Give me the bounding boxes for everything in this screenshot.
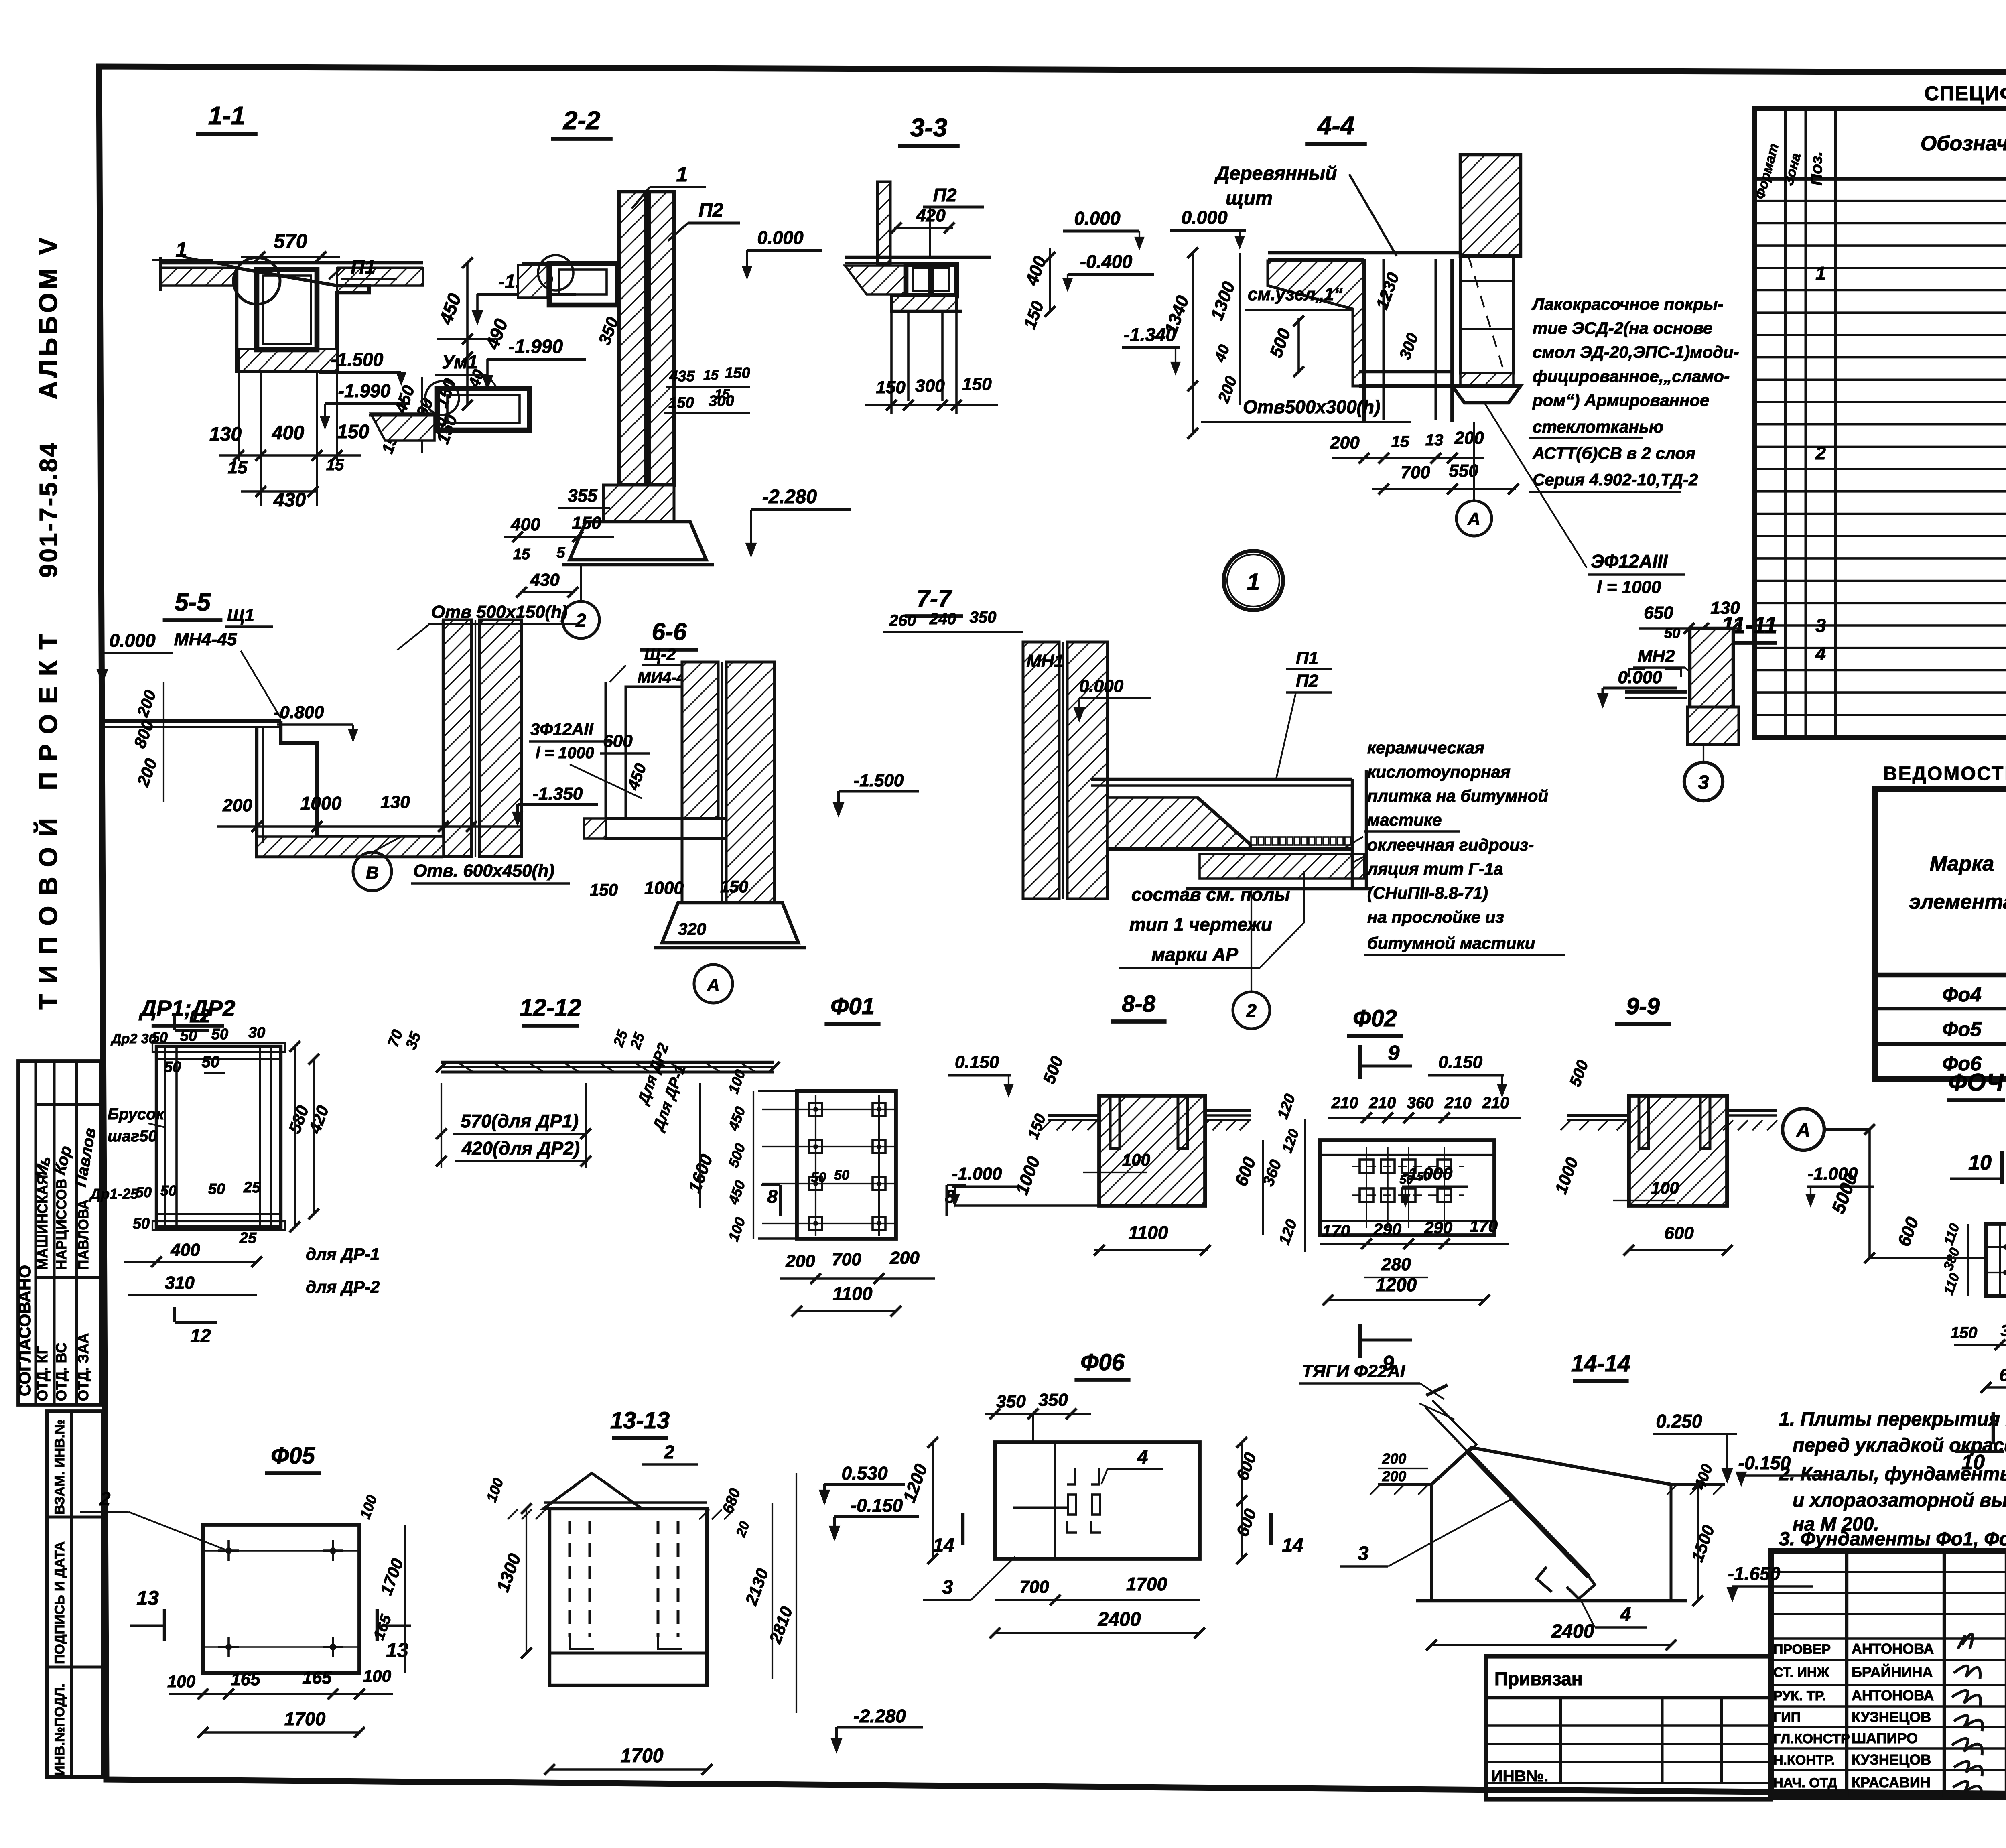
- DR grate plan: [156, 1046, 281, 1227]
- svg-text:и хлораозаторной выполнить из: и хлораозаторной выполнить из кислотоупо…: [1793, 1490, 2006, 1511]
- svg-text:-1.500: -1.500: [854, 771, 904, 790]
- svg-text:смол ЭД-20,ЭПС-1)моди-: смол ЭД-20,ЭПС-1)моди-: [1533, 343, 1739, 361]
- section 4-4 hatched wedge: [1268, 261, 1364, 386]
- svg-text:5-5: 5-5: [175, 589, 211, 616]
- svg-text:50: 50: [133, 1215, 150, 1232]
- section 4-4 left dim chain: [1192, 253, 1194, 433]
- svg-text:165: 165: [231, 1669, 260, 1689]
- svg-text:150: 150: [668, 394, 694, 411]
- svg-text:150: 150: [590, 880, 618, 899]
- svg-text:50: 50: [811, 1170, 826, 1185]
- svg-text:50: 50: [834, 1168, 849, 1183]
- svg-text:400: 400: [272, 422, 304, 444]
- svg-text:50: 50: [164, 1059, 181, 1076]
- svg-text:0.530: 0.530: [841, 1463, 888, 1484]
- 14-14 drawing: [1426, 1385, 1448, 1395]
- svg-text:битумной мастики: битумной мастики: [1367, 934, 1535, 952]
- svg-text:-1.990: -1.990: [508, 336, 563, 357]
- svg-text:Др2 30: Др2 30: [110, 1031, 156, 1046]
- svg-text:3: 3: [942, 1577, 953, 1598]
- steel consumption table: [1875, 789, 2006, 1079]
- svg-text:300: 300: [709, 393, 734, 410]
- svg-text:14-14: 14-14: [1571, 1350, 1630, 1377]
- privyazan block: [1486, 1656, 1771, 1799]
- svg-text:НАЧ. ОТД: НАЧ. ОТД: [1773, 1775, 1837, 1791]
- svg-text:2: 2: [1815, 443, 1826, 463]
- svg-text:СПЕЦИФИКАЦИЯ МОНОЛИТНЫХ ФУНДАМ: СПЕЦИФИКАЦИЯ МОНОЛИТНЫХ ФУНДАМЕНТОВ: [1925, 82, 2006, 105]
- svg-text:200: 200: [1454, 428, 1484, 448]
- svg-text:9-9: 9-9: [1626, 993, 1660, 1019]
- svg-text:А: А: [1796, 1120, 1811, 1141]
- svg-text:350: 350: [1038, 1390, 1068, 1410]
- section 4-4 channel walls: [1362, 259, 1366, 422]
- svg-text:0.250: 0.250: [1656, 1411, 1702, 1432]
- svg-text:15: 15: [703, 368, 719, 383]
- svg-text:МН4-45: МН4-45: [174, 630, 237, 649]
- svg-text:4-4: 4-4: [1317, 111, 1355, 140]
- svg-text:8: 8: [767, 1186, 778, 1207]
- svg-text:0.000: 0.000: [757, 227, 804, 248]
- svg-text:Ф05: Ф05: [271, 1443, 315, 1469]
- svg-text:50: 50: [208, 1181, 225, 1198]
- svg-text:1200: 1200: [1376, 1274, 1417, 1295]
- svg-text:СОГЛАСОВАНО: СОГЛАСОВАНО: [15, 1265, 34, 1396]
- svg-text:150: 150: [337, 421, 369, 443]
- svg-text:тие ЭСД-2(на основе: тие ЭСД-2(на основе: [1533, 319, 1712, 337]
- svg-text:-1.500: -1.500: [331, 349, 384, 370]
- section 3-3 slab: [845, 256, 991, 259]
- svg-text:АСТТ(б)СВ в 2 слоя: АСТТ(б)СВ в 2 слоя: [1532, 444, 1695, 463]
- svg-text:стеклотканью: стеклотканью: [1533, 417, 1663, 436]
- section 3-3 legs: [907, 311, 910, 401]
- svg-text:15: 15: [513, 546, 530, 563]
- F02 cut 9 top: [1358, 1045, 1362, 1079]
- svg-text:ЭФ12АIII: ЭФ12АIII: [1591, 551, 1668, 572]
- node A circle: [1783, 1109, 1824, 1150]
- F04 cut 10 bottom: [1992, 1412, 1995, 1444]
- section 4-4 right wall: [1460, 155, 1521, 256]
- svg-text:КУЗНЕЦОВ: КУЗНЕЦОВ: [1852, 1709, 1931, 1725]
- svg-text:АНТОНОВА: АНТОНОВА: [1852, 1641, 1934, 1657]
- svg-text:ВЗАМ. ИНВ.№: ВЗАМ. ИНВ.№: [52, 1419, 67, 1515]
- svg-text:12: 12: [189, 1005, 210, 1026]
- svg-text:ТЯГИ Ф22АI: ТЯГИ Ф22АI: [1302, 1361, 1405, 1381]
- svg-text:-1.990: -1.990: [338, 380, 391, 401]
- svg-text:600: 600: [1664, 1223, 1694, 1243]
- svg-text:ИНВ№.: ИНВ№.: [1491, 1767, 1548, 1785]
- svg-text:для ДР-1: для ДР-1: [306, 1245, 380, 1263]
- svg-text:Обозначение: Обозначение: [1921, 132, 2006, 155]
- svg-text:50: 50: [202, 1053, 220, 1071]
- svg-text:200: 200: [222, 796, 252, 815]
- svg-text:1700: 1700: [1126, 1574, 1167, 1594]
- svg-text:(СНиПII-8.8-71): (СНиПII-8.8-71): [1367, 883, 1488, 902]
- svg-text:КРАСАВИН: КРАСАВИН: [1852, 1774, 1931, 1791]
- svg-text:П1: П1: [1296, 648, 1318, 668]
- svg-text:4: 4: [1620, 1604, 1631, 1625]
- svg-text:420(для ДР2): 420(для ДР2): [461, 1138, 580, 1159]
- svg-text:Ф01: Ф01: [830, 993, 875, 1019]
- svg-text:Лакокрасочное покры-: Лакокрасочное покры-: [1531, 294, 1724, 313]
- F04 plan: [1986, 1224, 2006, 1296]
- svg-text:на прослойке из: на прослойке из: [1367, 908, 1504, 926]
- svg-text:150: 150: [962, 374, 992, 394]
- svg-text:КУЗНЕЦОВ: КУЗНЕЦОВ: [1852, 1751, 1931, 1768]
- svg-text:290: 290: [1373, 1220, 1401, 1239]
- svg-text:700: 700: [832, 1250, 861, 1269]
- svg-text:2-2: 2-2: [563, 106, 601, 135]
- svg-text:150: 150: [572, 513, 601, 533]
- svg-text:570(для ДР1): 570(для ДР1): [461, 1111, 579, 1131]
- svg-text:130: 130: [209, 424, 242, 445]
- svg-text:-0.150: -0.150: [1738, 1452, 1791, 1473]
- title block: [1771, 1551, 2006, 1797]
- svg-text:Марка: Марка: [1930, 852, 1994, 875]
- uzel 1 circle: [1224, 551, 1283, 610]
- svg-text:4: 4: [1137, 1447, 1148, 1468]
- F05 plan: [203, 1525, 359, 1673]
- svg-text:2: 2: [575, 610, 586, 631]
- svg-text:марки АР: марки АР: [1151, 944, 1238, 965]
- svg-text:1-1: 1-1: [208, 101, 246, 130]
- svg-text:14: 14: [933, 1535, 954, 1556]
- svg-text:3: 3: [1698, 772, 1709, 793]
- svg-text:310: 310: [165, 1273, 195, 1293]
- svg-text:ГЛ.КОНСТР: ГЛ.КОНСТР: [1773, 1731, 1850, 1746]
- svg-text:МН2: МН2: [1638, 646, 1675, 666]
- svg-text:В: В: [366, 863, 379, 883]
- svg-text:-2.280: -2.280: [762, 486, 817, 508]
- svg-text:300: 300: [2001, 1322, 2006, 1340]
- section 5-5 drawing: [443, 620, 471, 857]
- svg-text:АЛЬБОМ V: АЛЬБОМ V: [34, 234, 63, 399]
- svg-text:Щ1: Щ1: [227, 605, 254, 625]
- svg-text:130: 130: [380, 792, 410, 812]
- svg-text:-1.000: -1.000: [952, 1164, 1002, 1184]
- svg-text:Щ-2: Щ-2: [644, 645, 676, 664]
- svg-text:150: 150: [876, 378, 906, 397]
- svg-text:7-7: 7-7: [917, 585, 952, 612]
- svg-text:150: 150: [725, 365, 750, 382]
- svg-text:-0.150: -0.150: [851, 1495, 903, 1516]
- 7-7 floor and trench: [1091, 778, 1352, 781]
- svg-text:тип 1 чертежи: тип 1 чертежи: [1129, 914, 1272, 935]
- svg-text:165: 165: [302, 1668, 332, 1688]
- svg-text:210: 210: [1331, 1094, 1358, 1112]
- svg-text:ПОДПИСЬ И ДАТА: ПОДПИСЬ И ДАТА: [52, 1541, 67, 1664]
- svg-text:30: 30: [248, 1024, 265, 1041]
- svg-text:700: 700: [1019, 1577, 1049, 1597]
- svg-text:Фо5: Фо5: [1942, 1018, 1982, 1040]
- svg-text:350: 350: [970, 609, 997, 626]
- svg-text:Отв 500х150(h): Отв 500х150(h): [431, 602, 568, 622]
- svg-text:-2.280: -2.280: [853, 1706, 906, 1726]
- svg-text:1. Плиты перекрытия каналов и: 1. Плиты перекрытия каналов и деревянные…: [1779, 1409, 2006, 1430]
- svg-text:10: 10: [1961, 1451, 1985, 1474]
- DR cut 12: [173, 1015, 176, 1030]
- svg-text:Ф02: Ф02: [1353, 1005, 1397, 1032]
- 13-13 drawing: [544, 1473, 642, 1509]
- svg-text:130: 130: [1710, 598, 1740, 618]
- svg-text:1100: 1100: [833, 1283, 873, 1304]
- section 4-4 wall footing: [1460, 373, 1513, 386]
- svg-text:8-8: 8-8: [1122, 991, 1156, 1017]
- svg-text:3. Фундаменты Фо1, Фо2 выполня: 3. Фундаменты Фо1, Фо2 выполнять из бето…: [1779, 1529, 2006, 1550]
- svg-text:-1.000: -1.000: [1403, 1164, 1453, 1184]
- svg-text:ОТД. ЗАА: ОТД. ЗАА: [75, 1333, 91, 1401]
- svg-text:МАШИНСКАЯ: МАШИНСКАЯ: [35, 1175, 51, 1270]
- svg-text:3-3: 3-3: [910, 113, 948, 142]
- svg-text:320: 320: [678, 920, 706, 938]
- section 7-7 left wall: [1023, 642, 1059, 899]
- svg-text:650: 650: [1644, 603, 1673, 623]
- svg-text:400: 400: [510, 515, 540, 534]
- F02 plan: [1320, 1140, 1494, 1235]
- section 12-12 drawing: [441, 1061, 774, 1064]
- svg-text:1: 1: [1815, 263, 1826, 284]
- svg-text:200: 200: [889, 1248, 920, 1268]
- F02 cut 9 bottom: [1358, 1324, 1362, 1358]
- node circle 2 below 7-7: [1233, 992, 1270, 1029]
- svg-text:ПАВЛОВА: ПАВЛОВА: [76, 1200, 91, 1270]
- svg-text:570: 570: [274, 230, 307, 252]
- svg-text:Н.КОНТР.: Н.КОНТР.: [1773, 1753, 1835, 1768]
- svg-text:мастике: мастике: [1367, 810, 1442, 829]
- svg-text:0.000: 0.000: [109, 630, 156, 651]
- node circle 1-1: [233, 258, 280, 304]
- svg-text:ром“) Армированное: ром“) Армированное: [1532, 391, 1709, 410]
- svg-text:2400: 2400: [1551, 1621, 1594, 1642]
- section 4-4 top slab: [1268, 251, 1460, 254]
- F05 cut 13: [163, 1609, 166, 1641]
- svg-text:2: 2: [99, 1489, 111, 1510]
- svg-text:керамическая: керамическая: [1367, 738, 1484, 757]
- svg-text:Фо4: Фо4: [1942, 983, 1981, 1006]
- F01 plan: [797, 1091, 896, 1239]
- svg-text:l = 1000: l = 1000: [1597, 577, 1661, 597]
- svg-text:СТ. ИНЖ: СТ. ИНЖ: [1773, 1665, 1829, 1680]
- svg-text:13-13: 13-13: [610, 1407, 670, 1434]
- svg-text:300: 300: [915, 376, 945, 396]
- svg-text:-0.800: -0.800: [274, 703, 324, 722]
- svg-text:5: 5: [556, 544, 565, 561]
- svg-text:ТИПОВОЙ ПРОЕКТ: ТИПОВОЙ ПРОЕКТ: [33, 623, 63, 1009]
- svg-text:П2: П2: [933, 185, 957, 205]
- svg-text:1: 1: [176, 238, 187, 262]
- svg-text:100: 100: [1651, 1178, 1679, 1197]
- svg-text:АНТОНОВА: АНТОНОВА: [1852, 1687, 1934, 1704]
- svg-text:А: А: [707, 975, 720, 995]
- svg-text:ляция тит Г-1а: ляция тит Г-1а: [1366, 859, 1503, 878]
- svg-text:3: 3: [1358, 1543, 1369, 1564]
- svg-text:1700: 1700: [621, 1745, 664, 1767]
- svg-text:10: 10: [1968, 1151, 1992, 1174]
- svg-text:100: 100: [1122, 1150, 1150, 1169]
- svg-text:для ДР-2: для ДР-2: [306, 1277, 380, 1296]
- section 2-2 wall foundation: [603, 485, 674, 522]
- section 2-2 top channel: [522, 262, 619, 265]
- svg-text:150: 150: [1951, 1324, 1978, 1342]
- svg-text:3: 3: [1815, 615, 1826, 636]
- F06 anchor details: [1067, 1468, 1075, 1484]
- svg-text:ФОЧ: ФОЧ: [1948, 1069, 2004, 1096]
- svg-text:П1: П1: [351, 257, 375, 278]
- svg-text:200: 200: [1382, 1468, 1406, 1484]
- svg-text:13: 13: [1425, 431, 1444, 449]
- svg-text:МН1: МН1: [1027, 651, 1064, 671]
- svg-text:l = 1000: l = 1000: [536, 744, 594, 762]
- svg-text:0.150: 0.150: [955, 1052, 999, 1072]
- svg-text:Отв500х300(h): Отв500х300(h): [1243, 396, 1380, 417]
- svg-text:50: 50: [180, 1028, 197, 1044]
- svg-text:ОТД. КГ: ОТД. КГ: [34, 1346, 51, 1401]
- svg-text:25: 25: [239, 1230, 257, 1247]
- svg-text:Ум1: Ум1: [442, 351, 478, 372]
- svg-text:12: 12: [190, 1325, 211, 1346]
- svg-text:НАРЦИССОВ: НАРЦИССОВ: [54, 1179, 69, 1270]
- svg-text:210: 210: [1482, 1094, 1509, 1112]
- svg-text:ВЕДОМОСТЬ РАСХОДА СТАЛИ НА ЭЛЕ: ВЕДОМОСТЬ РАСХОДА СТАЛИ НА ЭЛЕМЕНТ, КГ: [1883, 763, 2006, 784]
- svg-text:150: 150: [720, 877, 748, 896]
- svg-text:200: 200: [785, 1251, 815, 1271]
- svg-text:50: 50: [152, 1029, 168, 1046]
- svg-text:Ф06: Ф06: [1080, 1349, 1125, 1375]
- section 1-1 drawing: [160, 261, 423, 264]
- svg-text:2400: 2400: [1098, 1609, 1141, 1630]
- svg-text:50: 50: [136, 1184, 152, 1200]
- svg-text:50: 50: [211, 1026, 228, 1043]
- svg-text:Др1-25: Др1-25: [89, 1186, 139, 1202]
- F06 plan: [995, 1442, 1200, 1559]
- svg-text:901-7-5.84: 901-7-5.84: [35, 441, 63, 578]
- svg-text:ИНВ.№ПОДЛ.: ИНВ.№ПОДЛ.: [52, 1684, 67, 1775]
- svg-text:100: 100: [167, 1672, 195, 1691]
- F06 cut 14: [961, 1513, 964, 1545]
- svg-text:1000: 1000: [300, 793, 342, 814]
- specification table grid: [1754, 108, 2006, 737]
- section 2-2 lower channel: [437, 388, 530, 430]
- svg-text:-0.400: -0.400: [1080, 251, 1133, 272]
- svg-text:0.000: 0.000: [1618, 668, 1662, 687]
- svg-text:1000: 1000: [644, 878, 684, 898]
- svg-text:350: 350: [996, 1392, 1026, 1411]
- svg-text:100: 100: [363, 1667, 391, 1686]
- svg-text:фицированное,„сламо-: фицированное,„сламо-: [1533, 367, 1730, 386]
- svg-text:600: 600: [1999, 1365, 2006, 1385]
- svg-text:ДР1;ДР2: ДР1;ДР2: [139, 995, 236, 1021]
- left stamp table 1 (approvals): [18, 1061, 101, 1405]
- svg-text:50: 50: [160, 1182, 177, 1199]
- svg-text:Привязан: Привязан: [1494, 1668, 1583, 1689]
- svg-text:15: 15: [228, 458, 248, 477]
- svg-text:Брусок: Брусок: [108, 1105, 165, 1123]
- svg-text:П2: П2: [698, 200, 723, 221]
- svg-text:элемента: элемента: [1909, 890, 2006, 914]
- svg-text:2: 2: [1246, 1000, 1257, 1021]
- section 3-3 wall: [877, 182, 890, 264]
- svg-text:6-6: 6-6: [652, 618, 687, 645]
- svg-text:РУК. ТР.: РУК. ТР.: [1773, 1688, 1826, 1704]
- svg-text:-1.350: -1.350: [533, 784, 583, 804]
- node A circle 4-4: [1456, 501, 1492, 536]
- svg-text:Поз.: Поз.: [1808, 152, 1825, 186]
- svg-text:355: 355: [568, 486, 597, 506]
- svg-text:состав см. полы: состав см. полы: [1131, 884, 1290, 905]
- svg-text:1100: 1100: [1129, 1222, 1168, 1243]
- svg-text:435: 435: [669, 368, 695, 385]
- svg-text:200: 200: [1330, 433, 1360, 453]
- left stamp table 2 (inventory): [47, 1411, 103, 1777]
- svg-text:0.000: 0.000: [1074, 208, 1121, 229]
- svg-text:кислотоупорная: кислотоупорная: [1367, 762, 1511, 781]
- section 3-3 channel: [906, 264, 956, 296]
- svg-text:1: 1: [676, 163, 688, 186]
- svg-text:25: 25: [243, 1179, 261, 1196]
- svg-text:1: 1: [1247, 569, 1260, 595]
- svg-text:БРАЙНИНА: БРАЙНИНА: [1852, 1663, 1933, 1680]
- svg-text:шаг50: шаг50: [108, 1127, 157, 1145]
- svg-text:0.150: 0.150: [1438, 1052, 1483, 1072]
- svg-text:Деревянный: Деревянный: [1214, 163, 1337, 184]
- svg-text:280: 280: [1381, 1255, 1411, 1274]
- svg-text:170: 170: [1470, 1216, 1498, 1235]
- svg-text:ОТД. ВС: ОТД. ВС: [53, 1343, 69, 1401]
- svg-text:240: 240: [929, 610, 956, 628]
- svg-text:200: 200: [1382, 1450, 1406, 1467]
- svg-text:290: 290: [1424, 1218, 1452, 1237]
- svg-text:3Ф12АII: 3Ф12АII: [530, 720, 594, 739]
- svg-text:9: 9: [1388, 1042, 1400, 1065]
- svg-text:0.000: 0.000: [1079, 676, 1124, 696]
- svg-text:см.узел„1“: см.узел„1“: [1248, 284, 1343, 304]
- svg-text:2: 2: [664, 1442, 674, 1462]
- svg-text:плитка на битумной: плитка на битумной: [1367, 786, 1548, 805]
- svg-text:430: 430: [530, 570, 560, 590]
- svg-text:13: 13: [136, 1587, 159, 1609]
- svg-text:-1.340: -1.340: [1124, 324, 1176, 345]
- svg-text:-1.650: -1.650: [1728, 1563, 1781, 1584]
- section 2-2 wall: [619, 192, 646, 485]
- svg-text:А: А: [1467, 509, 1480, 529]
- svg-text:П2: П2: [1296, 671, 1319, 691]
- svg-text:210: 210: [1444, 1094, 1472, 1112]
- svg-text:ШАПИРО: ШАПИРО: [1852, 1730, 1918, 1746]
- svg-text:420: 420: [916, 206, 946, 225]
- svg-text:4: 4: [1815, 643, 1826, 664]
- svg-text:400: 400: [170, 1240, 200, 1260]
- svg-text:14: 14: [1282, 1535, 1303, 1556]
- svg-text:1700: 1700: [284, 1708, 326, 1729]
- svg-text:ГИП: ГИП: [1773, 1710, 1801, 1725]
- svg-text:оклеечная гидроиз-: оклеечная гидроиз-: [1367, 835, 1534, 854]
- svg-text:430: 430: [273, 489, 306, 511]
- svg-text:15: 15: [326, 456, 344, 474]
- svg-text:700: 700: [1401, 463, 1430, 482]
- svg-text:15: 15: [1391, 433, 1409, 451]
- svg-text:Серия 4.902-10,ТД-2: Серия 4.902-10,ТД-2: [1533, 470, 1698, 489]
- svg-text:ПРОВЕР: ПРОВЕР: [1773, 1642, 1831, 1657]
- svg-text:210: 210: [1369, 1094, 1396, 1112]
- svg-text:щит: щит: [1226, 188, 1273, 209]
- svg-text:170: 170: [1322, 1221, 1350, 1240]
- svg-text:260: 260: [889, 612, 916, 630]
- svg-text:0.000: 0.000: [1181, 207, 1228, 228]
- svg-text:50: 50: [1664, 625, 1680, 641]
- svg-text:Отв. 600х450(h): Отв. 600х450(h): [413, 861, 554, 881]
- svg-text:12-12: 12-12: [520, 994, 581, 1021]
- svg-text:360: 360: [1407, 1094, 1434, 1112]
